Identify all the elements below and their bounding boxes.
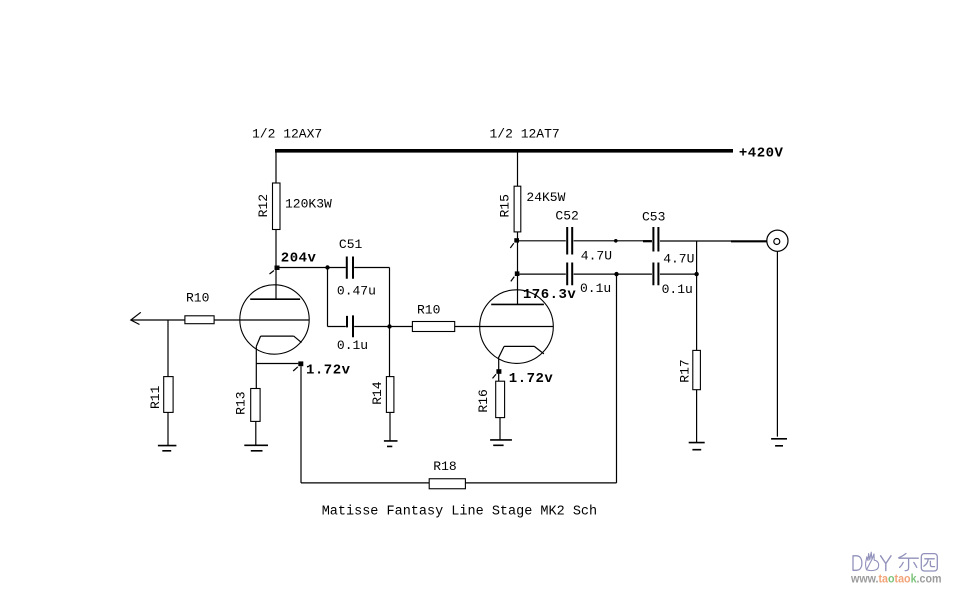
wire anode node to C52	[519, 240, 566, 242]
resistor R14	[386, 377, 394, 413]
node probe marker row1	[514, 238, 519, 242]
junction	[325, 265, 329, 269]
svg-text:0.1u: 0.1u	[662, 282, 693, 297]
capacitor C53 4.7U	[653, 227, 658, 252]
input arrow	[131, 312, 141, 324]
resistor R10 input	[185, 316, 214, 324]
svg-text:C53: C53	[642, 210, 665, 225]
svg-text:4.7U: 4.7U	[663, 251, 694, 266]
svg-text:4.7U: 4.7U	[581, 249, 612, 264]
svg-text:0.1u: 0.1u	[580, 281, 611, 296]
svg-text:0.1u: 0.1u	[337, 338, 368, 353]
wire junction down to lower branch	[327, 268, 329, 327]
svg-text:Matisse Fantasy Line Stage MK2: Matisse Fantasy Line Stage MK2 Sch	[322, 504, 597, 519]
wire R10 to tube V2 grid	[455, 326, 553, 328]
wire output branch down to R17	[696, 241, 698, 351]
wire R10 to tube V1 grid	[214, 319, 309, 321]
resistor R16	[496, 381, 505, 417]
svg-text:R12: R12	[256, 194, 271, 217]
svg-text:R17: R17	[677, 359, 692, 382]
node 204v probe marker	[275, 266, 280, 271]
wire to grid resistor R10	[390, 326, 413, 328]
node 1.72v probe marker	[298, 361, 303, 366]
svg-text:176.3v: 176.3v	[523, 287, 577, 303]
svg-text:0.47u: 0.47u	[337, 283, 376, 298]
svg-text:R10: R10	[417, 302, 440, 317]
wire R18 row left	[301, 482, 429, 484]
wire R18 row right	[465, 482, 616, 484]
power rail +420V	[275, 149, 733, 153]
wire 0.1u node down to R14	[389, 327, 391, 377]
capacitor C51 0.1u	[347, 315, 353, 337]
svg-text:R18: R18	[433, 459, 456, 474]
wire input to R10	[131, 319, 185, 321]
junction	[614, 272, 618, 276]
watermark logo chinese le	[899, 554, 919, 571]
svg-text:204v: 204v	[281, 251, 317, 267]
svg-text:1.72v: 1.72v	[509, 371, 554, 387]
capacitor C52 4.7U	[567, 227, 572, 255]
wire anode node to C51	[280, 267, 346, 269]
svg-text:C52: C52	[555, 208, 578, 223]
resistor R13	[251, 389, 260, 422]
svg-text:R14: R14	[370, 381, 385, 405]
wire lower branch through 0.1u	[328, 326, 390, 328]
junction	[694, 272, 698, 276]
wire R11 to ground	[167, 412, 169, 445]
ground	[158, 446, 177, 451]
junction	[387, 324, 391, 328]
wire R15 to tube V2 anode	[517, 232, 519, 305]
wire R14 to ground	[389, 412, 391, 441]
resistor R12	[273, 183, 281, 230]
watermark logo DIY	[853, 552, 891, 570]
wire rail to R12	[275, 152, 277, 183]
svg-text:+420V: +420V	[739, 146, 784, 162]
svg-text:1/2 12AX7: 1/2 12AX7	[252, 126, 322, 141]
wire cathode node to feedback	[256, 363, 298, 365]
wire R12 to tube V1 anode	[275, 230, 277, 300]
junction	[614, 239, 618, 243]
wire right branch down	[389, 268, 391, 327]
capacitor C51 0.47u	[347, 257, 353, 279]
wire feedback down	[300, 366, 302, 483]
wire V2 cathode down	[498, 358, 500, 381]
capacitor C52 0.1u	[567, 263, 572, 286]
wire C51 top right to right branch	[354, 267, 389, 269]
ground	[490, 440, 512, 445]
watermark logo chinese yuan	[921, 554, 937, 571]
wire C53 to output jack	[660, 240, 731, 242]
ground	[771, 439, 787, 446]
node 1.72v probe marker	[496, 369, 501, 374]
svg-text:24K5W: 24K5W	[526, 190, 565, 205]
wire C52 to junction	[574, 240, 652, 242]
svg-text:R11: R11	[148, 385, 163, 409]
triode V2 1/2 12AT7	[480, 290, 554, 364]
wire rail to R15	[517, 152, 519, 186]
svg-text:1.72v: 1.72v	[306, 362, 351, 378]
resistor R17	[693, 350, 701, 389]
wire to R17 branch	[660, 273, 697, 275]
ground	[244, 445, 268, 451]
resistor R10 interstage	[412, 322, 454, 332]
svg-text:R13: R13	[233, 391, 248, 414]
wire row2 node to C52 0.1u	[519, 273, 565, 275]
svg-text:R16: R16	[476, 389, 491, 412]
wire V1 cathode down	[255, 346, 257, 388]
triode V1 1/2 12AX7	[240, 285, 309, 354]
wire input node down to R11	[167, 320, 169, 377]
wire R13 to ground	[255, 421, 257, 445]
resistor R11	[164, 377, 173, 413]
node probe marker row2	[515, 271, 520, 276]
ground	[689, 443, 705, 450]
wire jack to ground	[776, 251, 778, 436]
svg-text:R15: R15	[498, 194, 513, 217]
svg-text:120K3W: 120K3W	[285, 196, 332, 211]
wire to junction	[574, 273, 652, 275]
output jack	[767, 230, 788, 251]
capacitor C53 0.1u	[653, 263, 658, 286]
ground	[384, 441, 398, 447]
svg-text:www.taotaok.com: www.taotaok.com	[850, 572, 941, 586]
resistor R15	[514, 186, 521, 232]
svg-text:1/2 12AT7: 1/2 12AT7	[490, 126, 560, 141]
resistor R18	[429, 479, 465, 489]
svg-text:R10: R10	[186, 291, 209, 306]
wire feedback up to output branch	[616, 274, 618, 483]
wire R17 to ground	[696, 390, 698, 443]
svg-text:C51: C51	[339, 237, 363, 252]
wire R16 to ground	[499, 418, 501, 440]
